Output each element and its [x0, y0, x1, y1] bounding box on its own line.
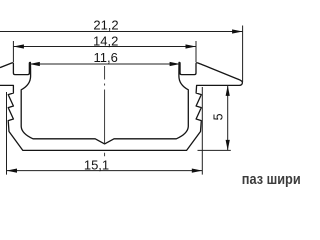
- centerline: [104, 66, 106, 156]
- profile outline: [0, 62, 242, 150]
- dim 5 line: [227, 85, 229, 150]
- dim 14,2 line: [13, 46, 196, 48]
- svg-text:11,6: 11,6: [94, 50, 118, 65]
- svg-text:паз шириной: паз шириной: [242, 170, 300, 187]
- dim 15,1 line: [7, 170, 203, 172]
- svg-text:5: 5: [211, 113, 225, 120]
- svg-text:15,1: 15,1: [84, 158, 109, 173]
- dim 21,2 line: [0, 31, 243, 33]
- dim 11,6 line: [29, 63, 180, 65]
- svg-text:14,2: 14,2: [93, 33, 118, 48]
- svg-text:21,2: 21,2: [93, 18, 118, 33]
